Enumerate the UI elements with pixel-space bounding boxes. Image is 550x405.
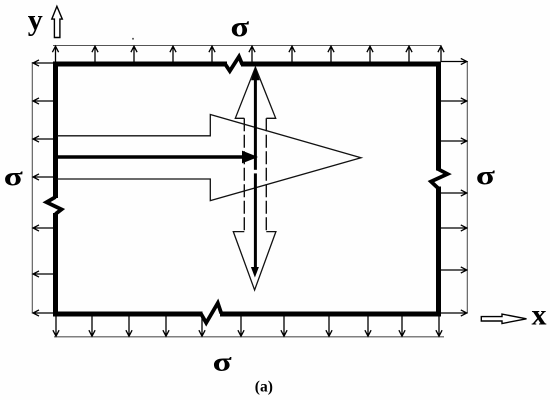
svg-text:σ: σ [213, 348, 232, 377]
svg-text:σ: σ [231, 11, 250, 43]
svg-text:(a): (a) [255, 378, 273, 395]
svg-text:σ: σ [476, 161, 495, 190]
svg-text:y: y [28, 3, 43, 36]
svg-text:x: x [532, 299, 547, 332]
svg-text:σ: σ [4, 162, 23, 191]
